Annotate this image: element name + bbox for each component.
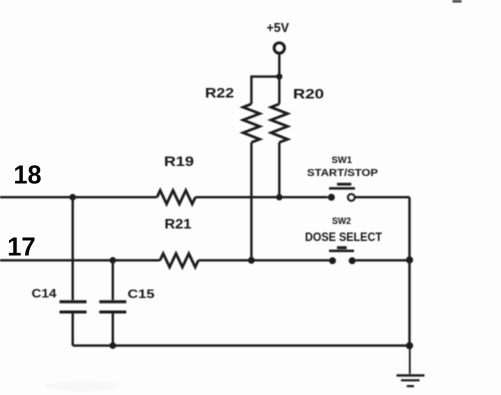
wire: net 18 left segment [0, 196, 157, 198]
wire: ground stem [409, 346, 411, 374]
svg-text:+5V: +5V [267, 21, 290, 35]
svg-text:C14: C14 [32, 287, 57, 301]
switch SW1 actuator bar [329, 187, 355, 190]
node: C15 junction on ground bus [110, 342, 117, 349]
switch SW2 actuator bar [329, 250, 354, 253]
power +5V terminal circle [274, 43, 284, 53]
artifact bottom-left faint smudge [44, 381, 120, 391]
ground symbol [397, 374, 425, 376]
resistor R19 body [157, 190, 195, 204]
resistor R22 body [243, 104, 260, 142]
wire: net 17 left segment [0, 259, 160, 261]
node: R20 junction on net 18 [276, 194, 282, 200]
svg-text:SW1: SW1 [332, 155, 353, 166]
capacitor C14 top lead [71, 197, 73, 300]
capacitor C14 plates [60, 300, 87, 303]
capacitor C15 bottom lead [112, 314, 114, 346]
capacitor C14 bottom lead [71, 314, 73, 346]
svg-text:R19: R19 [164, 153, 194, 169]
wire: +5V circle down to R20 top [278, 54, 280, 104]
svg-text:DOSE SELECT: DOSE SELECT [305, 232, 382, 244]
switch SW1 left contact [328, 194, 335, 201]
wire: net 17 middle segment [198, 259, 329, 261]
svg-text:17: 17 [7, 232, 36, 262]
wire: R20 bottom lead down to net 18 [278, 142, 280, 197]
svg-text:R20: R20 [293, 86, 324, 102]
wire: net 18 right segment from SW1 to right rail [355, 196, 409, 198]
node: C14 junction on net 18 [69, 194, 76, 201]
svg-text:C15: C15 [128, 287, 155, 301]
switch SW2 button cap [337, 246, 347, 249]
resistor R21 body [160, 254, 198, 268]
node: junction below +5V [276, 74, 282, 80]
capacitor C15 top lead [112, 260, 114, 300]
wire: top node left jog to R22 [251, 77, 279, 104]
capacitor C15 plates [99, 300, 126, 303]
wire: R22 bottom lead down to net 17 [250, 142, 252, 260]
node: right rail junction on ground bus [406, 342, 413, 349]
switch SW2 right contact [349, 257, 356, 264]
svg-text:R22: R22 [205, 85, 234, 101]
node: C15 junction on net 17 [110, 257, 117, 264]
node: R22 junction on net 17 [248, 257, 255, 264]
wire: ground bus bottom [73, 344, 410, 346]
svg-text:SW2: SW2 [332, 216, 351, 227]
svg-text:18: 18 [14, 160, 42, 190]
svg-text:START/STOP: START/STOP [307, 167, 378, 179]
wire: net 17 right segment from SW2 to right rail [356, 259, 410, 261]
switch SW1 button cap [337, 183, 351, 186]
switch SW1 right contact [348, 194, 355, 201]
svg-text:R21: R21 [165, 216, 192, 232]
node: right rail junction on net 17 [406, 256, 413, 263]
switch SW2 left contact [329, 257, 336, 264]
resistor R20 body [271, 104, 288, 142]
wire: net 18 middle segment [195, 196, 327, 198]
artifact top-right smudge [453, 0, 462, 3]
wire: right rail vertical [408, 197, 410, 345]
